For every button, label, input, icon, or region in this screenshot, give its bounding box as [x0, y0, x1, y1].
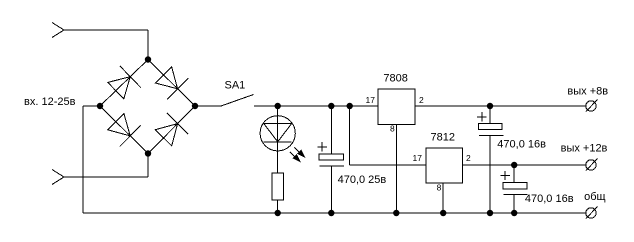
svg-text:вых +8в: вых +8в [567, 86, 608, 98]
svg-text:2: 2 [419, 95, 424, 105]
svg-text:2: 2 [466, 153, 471, 163]
svg-text:8: 8 [437, 183, 442, 193]
svg-text:17: 17 [413, 153, 423, 163]
svg-text:470,0 16в: 470,0 16в [525, 193, 574, 205]
svg-text:8: 8 [390, 124, 395, 134]
svg-text:вх. 12-25в: вх. 12-25в [24, 96, 76, 108]
svg-text:общ: общ [584, 191, 605, 203]
svg-text:17: 17 [366, 95, 376, 105]
svg-text:вых +12в: вых +12в [561, 143, 608, 155]
svg-text:7808: 7808 [383, 73, 407, 85]
svg-text:7812: 7812 [431, 132, 455, 144]
svg-text:SA1: SA1 [225, 80, 246, 92]
svg-text:470,0 16в: 470,0 16в [497, 139, 546, 151]
svg-text:470,0 25в: 470,0 25в [338, 174, 387, 186]
